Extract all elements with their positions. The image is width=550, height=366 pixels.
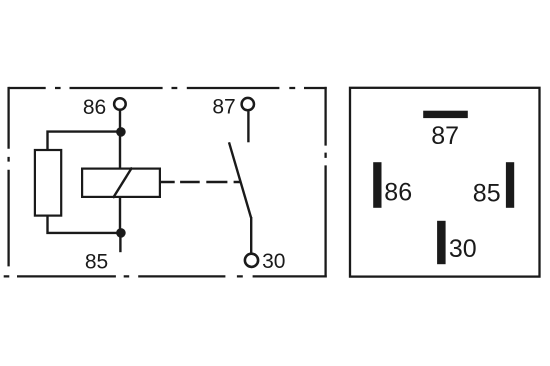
svg-text:86: 86	[83, 96, 106, 119]
svg-text:85: 85	[85, 250, 108, 273]
svg-text:87: 87	[431, 122, 459, 150]
svg-text:30: 30	[262, 250, 285, 273]
svg-text:87: 87	[212, 95, 235, 118]
svg-text:85: 85	[473, 179, 501, 207]
svg-text:30: 30	[449, 235, 477, 263]
svg-text:86: 86	[384, 178, 412, 206]
